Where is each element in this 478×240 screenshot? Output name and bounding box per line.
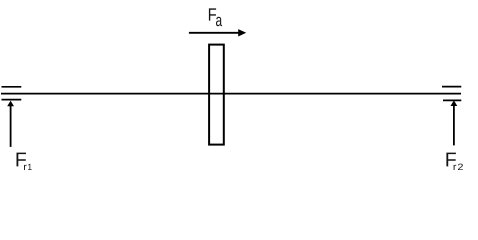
disc rectangle bbox=[209, 45, 224, 145]
shaft line bbox=[1, 93, 461, 95]
left bearing top line bbox=[2, 86, 22, 88]
right bearing bottom line bbox=[443, 99, 461, 101]
label Fr1 bbox=[17, 153, 32, 170]
axial force arrow Fa bbox=[189, 29, 246, 36]
right bearing top line bbox=[442, 86, 461, 88]
left reaction arrow bbox=[7, 101, 14, 147]
left bearing bottom line bbox=[2, 99, 22, 101]
label Fa bbox=[209, 8, 222, 26]
right reaction arrow bbox=[451, 100, 458, 145]
label Fr2 bbox=[446, 153, 462, 170]
